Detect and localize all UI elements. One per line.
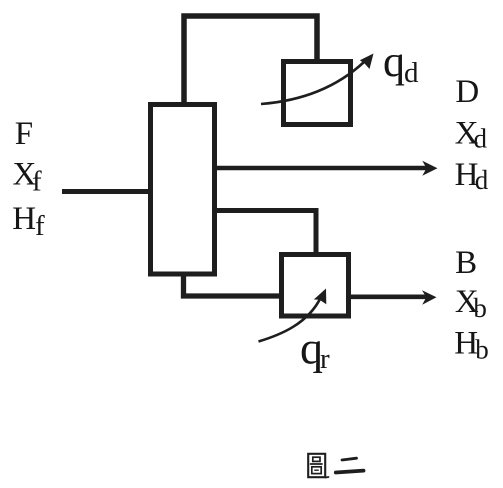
caption: character 圖 bbox=[308, 454, 328, 478]
svg-text:q: q bbox=[383, 37, 405, 86]
svg-text:Xf: Xf bbox=[13, 157, 43, 198]
arrow qd (condenser duty curved arrow) bbox=[261, 62, 364, 104]
caption: character 二 bbox=[336, 458, 364, 472]
svg-text:r: r bbox=[320, 343, 330, 375]
wire: column side draw to reboiler bbox=[215, 211, 316, 256]
reboiler box bbox=[282, 255, 349, 317]
svg-text:Hb: Hb bbox=[454, 326, 488, 365]
wire: column bottoms to reboiler bbox=[184, 274, 282, 296]
svg-text:Xd: Xd bbox=[455, 116, 488, 154]
condenser box bbox=[284, 62, 351, 125]
svg-text:F: F bbox=[15, 116, 33, 152]
arrow D (distillate product line) bbox=[216, 166, 428, 171]
svg-text:Xb: Xb bbox=[455, 284, 487, 323]
arrow B (bottoms product line) bbox=[351, 294, 428, 299]
distillation column (main rectangle) bbox=[151, 105, 215, 275]
svg-text:Hd: Hd bbox=[455, 157, 489, 195]
svg-text:Hf: Hf bbox=[12, 201, 45, 242]
svg-text:B: B bbox=[455, 245, 477, 281]
wire: feed line bbox=[62, 189, 150, 194]
svg-text:D: D bbox=[455, 74, 479, 110]
svg-text:d: d bbox=[404, 57, 419, 89]
wire: overhead vapor line (column top to condenser) bbox=[184, 16, 317, 103]
arrow qr (reboiler duty curved arrow) bbox=[259, 297, 322, 342]
